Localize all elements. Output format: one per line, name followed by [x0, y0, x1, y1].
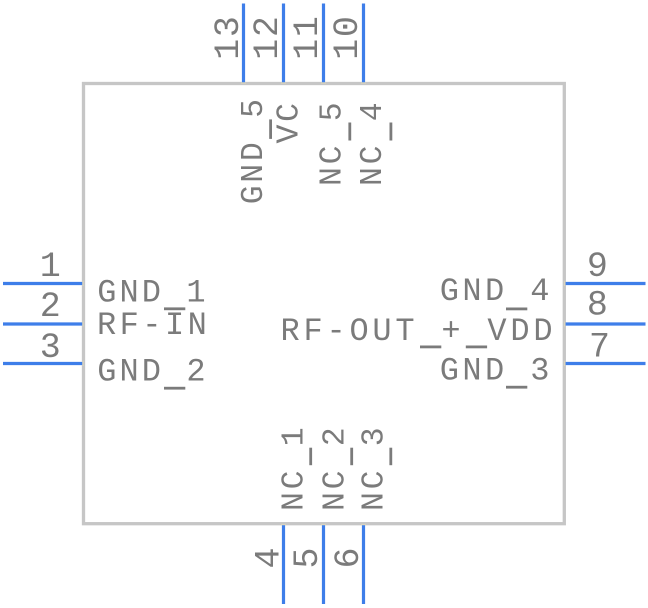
svg-text:8: 8: [587, 286, 608, 326]
svg-text:9: 9: [587, 247, 608, 287]
svg-text:GND 5: GND 5: [237, 96, 272, 204]
svg-text:GND 1: GND 1: [97, 274, 209, 311]
svg-text:6: 6: [329, 547, 369, 568]
svg-text:GND 3: GND 3: [440, 353, 553, 390]
svg-text:5: 5: [288, 547, 328, 568]
svg-text:10: 10: [328, 14, 368, 59]
svg-text:NC 2: NC 2: [318, 425, 353, 511]
svg-text:4: 4: [250, 547, 290, 568]
svg-text:RF-OUT + VDD: RF-OUT + VDD: [281, 313, 557, 350]
svg-text:NC 3: NC 3: [358, 425, 393, 511]
svg-text:GND 2: GND 2: [97, 354, 209, 391]
svg-text:3: 3: [40, 328, 61, 368]
svg-text:1: 1: [40, 247, 61, 287]
svg-text:NC 1: NC 1: [277, 425, 312, 511]
svg-text:11: 11: [288, 14, 328, 59]
svg-text:13: 13: [209, 14, 249, 59]
svg-text:RF-IN: RF-IN: [97, 307, 210, 344]
svg-text:7: 7: [589, 328, 610, 368]
svg-text:GND 4: GND 4: [440, 273, 553, 310]
svg-text:2: 2: [40, 287, 61, 327]
svg-text:NC 5: NC 5: [316, 100, 351, 186]
svg-text:12: 12: [248, 14, 288, 59]
svg-text:NC 4: NC 4: [356, 100, 391, 186]
svg-text:VC: VC: [273, 100, 308, 143]
